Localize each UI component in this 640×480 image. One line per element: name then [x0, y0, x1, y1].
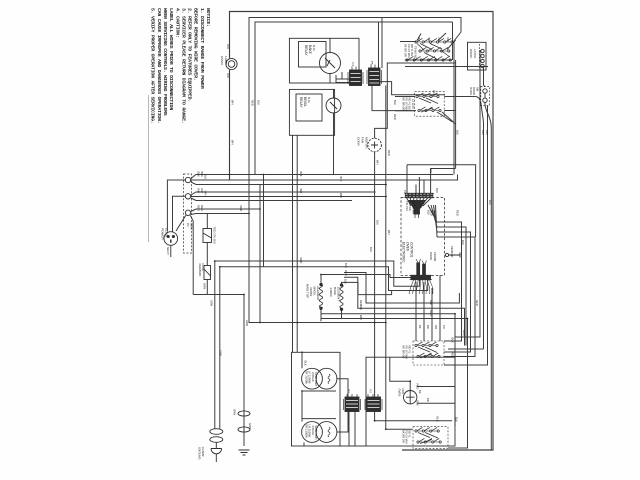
svg-text:2. REFER ONLY TO FEATURES EQUI: 2. REFER ONLY TO FEATURES EQUIPPED. [187, 8, 193, 102]
svg-text:GRN: GRN [233, 409, 237, 415]
wire low rail H18 [344, 277, 465, 345]
wire mid rail H12 staircase to CN2 [215, 261, 420, 286]
wire selector diag 2 [447, 40, 456, 50]
wire bake bottom lead [341, 310, 343, 319]
svg-text:CLAMP: CLAMP [201, 447, 205, 457]
svg-text:FUSE: FUSE [201, 264, 205, 272]
svg-text:OVEN: OVEN [220, 56, 224, 65]
bake-broil switch (cluster C2, dashed) [415, 92, 445, 117]
wire V483.5 [483, 67, 485, 350]
svg-text:BLK: BLK [344, 279, 348, 284]
svg-text:WH: WH [231, 100, 235, 105]
svg-text:WH: WH [433, 210, 437, 215]
wire P3 green lead [190, 215, 193, 294]
svg-text:WH: WH [226, 44, 230, 49]
svg-text:GRN: GRN [248, 423, 252, 429]
svg-text:RED: RED [299, 258, 303, 264]
svg-text:BR: BR [426, 325, 430, 329]
wire relay out to plug P4 b [336, 82, 350, 84]
wire lower rail H21 [249, 322, 386, 324]
svg-text:RED: RED [344, 270, 348, 276]
wire V487.5 [444, 106, 488, 366]
wire element bottom lead [303, 442, 305, 446]
wire conv fan riser [375, 63, 456, 138]
wire CN1 out wire 1 [437, 222, 462, 341]
infinite switch plug P6 [345, 397, 359, 412]
svg-text:BAKE: BAKE [308, 45, 312, 55]
svg-text:TB NO NC: TB NO NC [413, 46, 417, 59]
wire P3-to-cord diagonal [176, 215, 186, 231]
svg-text:RED: RED [475, 300, 479, 306]
svg-text:LAMP: LAMP [224, 56, 228, 64]
svg-text:BLK: BLK [204, 174, 208, 180]
svg-text:GRN: GRN [245, 320, 249, 326]
wire ground run 1 [214, 261, 216, 429]
svg-text:MOTOR: MOTOR [365, 137, 369, 149]
svg-text:BROIL: BROIL [303, 97, 307, 107]
svg-text:RD YL: RD YL [408, 346, 412, 354]
wire terminal P2 lead a [191, 192, 375, 195]
svg-text:RED: RED [432, 90, 436, 96]
power terminal circle P1 [185, 177, 190, 182]
svg-text:RED: RED [451, 352, 455, 358]
junction dots [214, 174, 468, 431]
svg-text:BR: BR [426, 398, 430, 402]
svg-text:BLK: BLK [461, 240, 465, 245]
wire element feed 1 [301, 352, 303, 368]
svg-text:NOTICE:: NOTICE: [205, 8, 211, 27]
svg-text:LABEL ALL WIRES PRIOR TO DISCO: LABEL ALL WIRES PRIOR TO DISCONNECTION [168, 8, 174, 110]
thermal cut-out TOD [203, 229, 212, 243]
wire selector diag 3 [417, 34, 421, 41]
wire V491 [490, 128, 492, 450]
ceramic fuse F1 [204, 266, 211, 280]
svg-text:GRN: GRN [189, 223, 193, 229]
wire gap bridge [340, 445, 366, 447]
svg-text:BLK: BLK [436, 417, 440, 422]
svg-text:BLK: BLK [481, 130, 485, 135]
wire selector diag 1 [438, 33, 446, 41]
svg-text:RED: RED [197, 205, 201, 211]
svg-text:BLK: BLK [369, 247, 373, 252]
svg-text:PROBE: PROBE [433, 252, 437, 262]
wire conv fan drop [375, 152, 452, 421]
svg-text:FAN: FAN [401, 389, 405, 394]
svg-text:DOOR: DOOR [429, 252, 433, 260]
svg-text:BLK: BLK [344, 263, 348, 268]
svg-text:WH: WH [339, 193, 343, 198]
svg-text:GRN: GRN [210, 300, 214, 306]
svg-text:1. DISCONNECT RANGE FROM POWER: 1. DISCONNECT RANGE FROM POWER [199, 8, 205, 89]
svg-text:BLK: BLK [455, 417, 459, 422]
wire drop V263 [263, 175, 265, 267]
svg-text:ELECTRONIC: ELECTRONIC [402, 242, 406, 263]
svg-text:POWER: POWER [161, 228, 165, 240]
svg-text:FAN: FAN [361, 137, 365, 143]
wire low rail H17 [344, 273, 459, 304]
svg-text:P1: P1 [347, 390, 351, 394]
relay box K1 (bake relay) [289, 38, 359, 83]
svg-text:RED: RED [456, 210, 460, 216]
wire bake sw out right [444, 96, 461, 98]
wire circle1 left lead + drop to cord [167, 180, 185, 232]
svg-text:RED: RED [387, 150, 391, 156]
svg-text:P2: P2 [369, 390, 373, 394]
terminal block dashed enclosure [184, 174, 192, 253]
svg-text:RED: RED [462, 330, 466, 336]
lower broil switch (cluster C4, dashed) [413, 427, 448, 449]
svg-text:DOOR: DOOR [469, 49, 473, 58]
wire drop V260 [259, 185, 261, 323]
svg-text:BLK: BLK [376, 220, 380, 225]
svg-text:5. VERIFY PROPER OPERATION AFT: 5. VERIFY PROPER OPERATION AFTER SERVICI… [150, 8, 156, 123]
svg-text:RED: RED [393, 114, 397, 120]
infinite switch plug P7 [367, 397, 381, 412]
svg-text:BLK: BLK [488, 200, 492, 205]
wire relay out to plug P4 [336, 72, 350, 83]
power cord plug [164, 232, 178, 246]
svg-text:BLK: BLK [416, 401, 420, 406]
oven fan motor M2 [404, 391, 417, 404]
svg-text:RED: RED [239, 206, 243, 212]
svg-text:WH: WH [387, 230, 391, 235]
door latch switch box [468, 42, 487, 70]
wire V455.6 [455, 60, 457, 169]
svg-text:BLK: BLK [197, 172, 201, 178]
wire selector feed [400, 41, 416, 43]
wire low rail H20 [321, 319, 468, 449]
connector plug P4 [350, 70, 362, 86]
svg-text:4. CAUTION:: 4. CAUTION: [174, 8, 180, 38]
svg-text:MAIN TOP: MAIN TOP [306, 284, 310, 298]
svg-text:CONV: CONV [357, 137, 361, 147]
wire plug risers [379, 18, 383, 69]
power terminal circle P3 [185, 210, 190, 215]
svg-text:SW: SW [475, 87, 479, 92]
svg-text:P4: P4 [351, 63, 355, 67]
svg-text:WH: WH [359, 315, 363, 320]
surface element box [292, 352, 341, 446]
wire element mid link [302, 391, 336, 422]
ground stack G1 [210, 429, 223, 435]
wire plug P5 to selector step [380, 82, 445, 95]
wire terminal P1 lead b [191, 175, 458, 181]
svg-text:NEUT: NEUT [166, 247, 170, 255]
wire element right links [337, 379, 348, 432]
svg-text:SENSOR: SENSOR [450, 246, 454, 257]
wire control feed right step2 [431, 168, 456, 170]
svg-text:BLK: BLK [299, 172, 303, 177]
wire L2 rail [255, 22, 453, 175]
wire C2 diagonals [437, 112, 456, 124]
svg-text:LATCH: LATCH [473, 49, 477, 58]
wire N rail [249, 18, 461, 323]
svg-text:GRN: GRN [219, 350, 223, 356]
surface element pair SE2 [302, 422, 323, 443]
svg-text:RD YL: RD YL [408, 430, 412, 438]
svg-text:BLK: BLK [485, 130, 489, 135]
wire terminal P1 lead a [191, 175, 453, 179]
svg-text:OVEN: OVEN [406, 242, 410, 252]
svg-text:SURF UNIT: SURF UNIT [314, 372, 318, 387]
wire terminal P3 lead a [191, 209, 260, 212]
wire door sw chain [484, 89, 486, 106]
svg-text:BLK: BLK [359, 305, 363, 310]
svg-text:BLK: BLK [339, 177, 343, 182]
wire low rail H19 [321, 314, 455, 427]
wire oven fan red lead [417, 386, 455, 388]
broil element coil [319, 284, 322, 308]
svg-text:WH: WH [226, 73, 230, 78]
svg-text:BLK: BLK [429, 168, 433, 173]
svg-text:CONTROL: CONTROL [410, 242, 414, 258]
wire terminal P1 lead c [191, 182, 386, 185]
wire selector out right [405, 66, 488, 68]
svg-text:P5: P5 [370, 61, 374, 65]
svg-text:BK: BK [418, 390, 422, 394]
svg-text:WHEN SERVICING CONTROLS. WIRIN: WHEN SERVICING CONTROLS. WIRING PROBLEMS [162, 8, 168, 116]
wire door sw S-curve [461, 97, 484, 125]
svg-text:WH: WH [231, 140, 235, 145]
control board connector strip CN1 [405, 193, 408, 197]
svg-text:BEFORE REMOVING WIRE COVER.: BEFORE REMOVING WIRE COVER. [193, 8, 199, 81]
svg-text:ELEMENT: ELEMENT [337, 287, 341, 301]
wire CN1 out wire 4 [437, 237, 475, 357]
wire broil bottom lead [320, 308, 322, 322]
wire terminal P3 lead b [191, 214, 249, 215]
wire ground run 2 [219, 267, 221, 429]
svg-text:BK RD WH: BK RD WH [411, 201, 415, 214]
wire oven fan blk lead [417, 402, 455, 404]
svg-text:N.O.: N.O. [307, 97, 311, 103]
svg-text:TOD 170-30X: TOD 170-30X [213, 227, 217, 244]
svg-text:2400W: 2400W [329, 288, 333, 297]
wire mid rail H13 staircase to CN2 [220, 267, 428, 291]
svg-text:OVEN: OVEN [398, 389, 402, 397]
wire oven fan riser [390, 357, 410, 390]
wire element low link [302, 418, 336, 420]
svg-text:RED: RED [429, 310, 433, 316]
wire door sw entry [484, 85, 486, 87]
wire CN1 out wire 2 [437, 227, 466, 346]
wire C2 left feeds [395, 97, 415, 111]
svg-text:BK: BK [418, 325, 422, 329]
wire L2 rail drop [452, 22, 454, 60]
svg-text:CERAMIC: CERAMIC [198, 264, 202, 277]
svg-text:OR: OR [434, 325, 438, 329]
svg-text:BLK: BLK [435, 188, 439, 193]
wire door sw lower lead [485, 106, 491, 129]
oven selector switch contacts (cluster C1) [415, 41, 417, 43]
electronic oven control dashed box [401, 198, 445, 276]
wire selector bottom bus [405, 59, 452, 61]
wire V480 [455, 50, 480, 337]
wire fuse bottom run to ground bus [193, 295, 244, 447]
ground stack G2 (chassis ground) [238, 411, 250, 416]
svg-text:OR: OR [427, 38, 431, 42]
lower oven switch (cluster C3, dashed) [413, 341, 444, 365]
wire control feed right step [407, 165, 476, 237]
wire control feeds [407, 165, 431, 194]
wire relay box drop b [296, 135, 298, 352]
wire P6 stubs down [349, 412, 355, 447]
svg-text:WH: WH [299, 189, 303, 194]
surface element pair SE1 [302, 368, 323, 389]
svg-text:BR: BR [417, 38, 421, 42]
wire C3 risers [416, 275, 440, 341]
svg-text:PU: PU [442, 325, 446, 329]
svg-text:P1: P1 [403, 190, 407, 194]
svg-text:CORD: CORD [165, 228, 169, 238]
wire L1 rail (outer): left/top/right/bottom [230, 12, 494, 451]
relay K1 coil [320, 53, 341, 74]
svg-text:BLK: BLK [304, 361, 308, 366]
svg-text:BLK: BLK [393, 100, 397, 105]
connector plug P5 [369, 68, 381, 86]
svg-text:RED: RED [251, 100, 255, 106]
wire thermal stack link [206, 214, 208, 295]
wire terminal P2 lead c [191, 198, 352, 201]
wire broil loop [321, 275, 412, 285]
svg-text:ELEMENT: ELEMENT [316, 287, 320, 301]
svg-text:WH: WH [204, 191, 208, 196]
oven lamp DE1 [226, 58, 237, 69]
oven temp sensor [445, 253, 448, 256]
svg-text:GY: GY [437, 38, 441, 42]
svg-text:RELAY: RELAY [299, 97, 303, 108]
fold line [147, 95, 150, 242]
svg-text:3. SERVICER PLEASE RETURN DIAG: 3. SERVICER PLEASE RETURN DIAGRAM TO RAN… [180, 8, 186, 123]
wire terminal P2 lead b [191, 196, 386, 198]
wire relay box drop a [292, 135, 294, 352]
svg-text:BLK: BLK [257, 100, 261, 105]
relay K2 coil [326, 98, 341, 113]
svg-text:BLK: BLK [451, 338, 455, 343]
wire H23 [448, 348, 484, 350]
svg-text:RELAY: RELAY [304, 45, 308, 56]
svg-text:BLK: BLK [200, 172, 204, 178]
relay box K2 (broil relay) [289, 89, 334, 135]
svg-text:WH: WH [200, 188, 204, 193]
svg-text:RED: RED [200, 205, 204, 211]
bake element coil [340, 285, 343, 309]
wire plug P4 bottom step [372, 86, 416, 111]
wire CN1 fan a [428, 205, 437, 237]
svg-text:BLK: BLK [429, 300, 433, 305]
wire bake top step [342, 282, 392, 294]
svg-text:N.O.: N.O. [312, 45, 316, 51]
control low connector CN2 [411, 263, 431, 280]
svg-text:RD: RD [446, 38, 450, 42]
svg-text:WH: WH [376, 160, 380, 165]
wire circle2 left lead + drop to cord [173, 196, 186, 232]
oven door switch (dashed) [481, 87, 490, 106]
wire CN1 out wire 3 [437, 232, 471, 352]
svg-text:GRN: GRN [203, 283, 207, 289]
power terminal circle P2 [185, 194, 190, 199]
wire V385 long drop [386, 86, 413, 430]
svg-text:L1 L2 N: L1 L2 N [411, 99, 415, 108]
svg-text:GROUND: GROUND [198, 447, 202, 459]
wire bake sw out right 2 [444, 110, 455, 112]
CN1 pins [407, 198, 432, 206]
oven compartment box [366, 357, 455, 446]
svg-text:RED: RED [416, 384, 420, 390]
svg-text:BLK: BLK [456, 130, 460, 135]
svg-text:WH: WH [197, 188, 201, 193]
wire power cord tail [170, 245, 172, 257]
svg-text:SURF UNIT: SURF UNIT [314, 426, 318, 441]
convection fan motor M1 [368, 138, 382, 152]
